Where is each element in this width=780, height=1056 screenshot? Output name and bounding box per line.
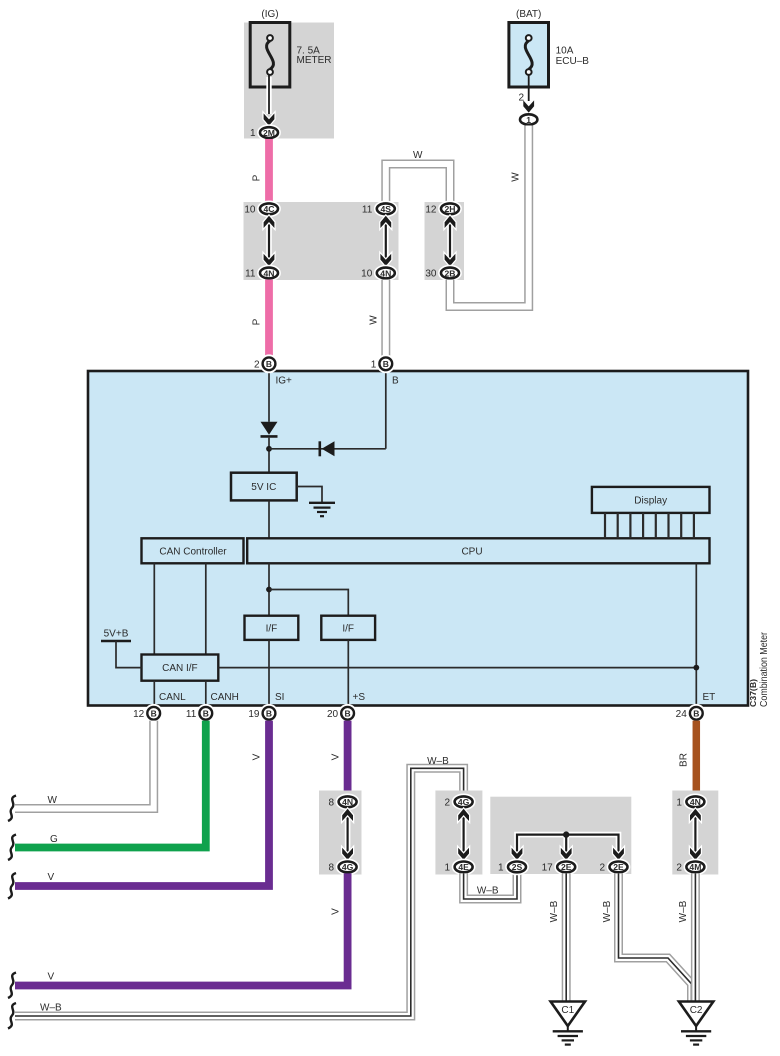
CAN Controller box <box>142 538 244 563</box>
meter pin 12 B CANL <box>133 707 160 720</box>
svg-text:P: P <box>252 174 263 181</box>
svg-text:2: 2 <box>445 797 451 808</box>
junction connector gray box 2H/2B <box>425 202 465 280</box>
svg-text:V: V <box>252 753 263 760</box>
meter pin 2 B IG+ <box>254 357 275 370</box>
CPU box <box>247 538 709 563</box>
svg-text:B: B <box>266 359 272 369</box>
wire ET internal <box>218 563 715 706</box>
svg-text:B: B <box>266 709 272 719</box>
wire D1 to 5V IC with node <box>266 438 272 473</box>
connector 2M pin 1 <box>250 127 278 139</box>
svg-text:ET: ET <box>703 692 716 703</box>
connector gray box 4N/4G <box>319 791 362 875</box>
svg-text:4E: 4E <box>458 862 469 872</box>
svg-text:B: B <box>383 359 389 369</box>
svg-text:4G: 4G <box>458 797 470 807</box>
svg-text:1: 1 <box>445 863 451 874</box>
label C37(B) Combination Meter <box>748 631 770 707</box>
svg-text:1: 1 <box>526 115 531 125</box>
svg-text:BR: BR <box>679 753 690 767</box>
wire SI internal <box>269 640 284 707</box>
wire BR pin 24 to 4N <box>679 721 697 796</box>
svg-text:CANH: CANH <box>211 692 239 703</box>
connector gray box 4N/4M <box>672 791 718 875</box>
wire W-B bottom long to 4G <box>15 756 464 1016</box>
svg-text:W: W <box>511 172 522 182</box>
break squiggle W <box>8 796 16 822</box>
svg-text:2H: 2H <box>445 204 456 214</box>
svg-text:2: 2 <box>254 360 260 371</box>
wire W-B 2E pin17 to ground C1 <box>549 873 566 1001</box>
svg-text:CPU: CPU <box>461 546 482 557</box>
svg-text:METER: METER <box>297 55 332 66</box>
wire W 4N to meter pin 1 <box>369 280 386 357</box>
connector 2B pin 30 <box>425 268 459 280</box>
svg-text:C2: C2 <box>690 1005 703 1016</box>
svg-text:11: 11 <box>362 204 373 215</box>
svg-text:W–B: W–B <box>40 1003 62 1014</box>
connector 1 <box>520 114 537 125</box>
wire 5V IC to CPU <box>268 500 270 538</box>
break squiggle V <box>8 873 16 899</box>
svg-text:B: B <box>151 709 157 719</box>
svg-text:W–B: W–B <box>678 900 689 922</box>
fuse IG value label <box>297 46 332 67</box>
svg-text:11: 11 <box>186 709 197 720</box>
wire +S internal <box>348 640 365 707</box>
IG fuse holder gray box <box>244 23 334 139</box>
svg-text:W–B: W–B <box>602 900 613 922</box>
svg-text:8: 8 <box>329 797 335 808</box>
break squiggle G <box>8 835 16 861</box>
wire W from BAT down to 2B <box>450 126 529 307</box>
5V IC box <box>231 473 297 501</box>
svg-text:CANL: CANL <box>159 692 186 703</box>
svg-text:2B: 2B <box>445 268 456 278</box>
I/F box left <box>245 616 299 640</box>
svg-text:4N: 4N <box>690 797 701 807</box>
bus arrows into 2S 2E 2E <box>512 848 624 860</box>
svg-text:2E: 2E <box>561 862 572 872</box>
wires CAN Controller to CAN I/F <box>154 563 206 654</box>
svg-text:2M: 2M <box>263 128 275 138</box>
svg-text:2: 2 <box>599 863 605 874</box>
connector 2H pin 12 <box>425 203 459 215</box>
svg-text:(IG): (IG) <box>261 9 278 20</box>
svg-text:4N: 4N <box>342 797 353 807</box>
svg-text:5V IC: 5V IC <box>251 482 276 493</box>
svg-text:C37(B): C37(B) <box>748 679 758 707</box>
Display box <box>592 487 710 513</box>
wire G CANH to left <box>15 721 206 848</box>
svg-text:V: V <box>330 753 341 760</box>
connector 4M pin 2 <box>676 862 704 874</box>
fuse IG 7.5A METER <box>250 9 290 87</box>
wire fuse BAT to connector 1 <box>518 75 534 113</box>
meter pin 20 B +S <box>327 707 354 720</box>
svg-text:4N: 4N <box>380 268 391 278</box>
wire P pink 4N to meter pin 2 <box>252 280 270 357</box>
svg-text:C1: C1 <box>561 1005 574 1016</box>
connector 2S pin 1 <box>498 862 526 874</box>
svg-text:W: W <box>48 795 58 806</box>
wire W-B 4E to 2S <box>464 873 517 899</box>
svg-text:I/F: I/F <box>266 623 278 634</box>
svg-text:8: 8 <box>329 863 335 874</box>
svg-text:1: 1 <box>250 128 256 139</box>
connector 4G pin 2 <box>445 796 473 808</box>
connector 4C pin 10 <box>244 203 278 215</box>
svg-text:1: 1 <box>676 797 682 808</box>
svg-text:ECU–B: ECU–B <box>556 56 590 67</box>
svg-text:G: G <box>50 834 58 845</box>
connector 4E pin 1 <box>445 862 473 874</box>
svg-text:W–B: W–B <box>477 886 499 897</box>
connector 2E pin 17 <box>542 862 576 874</box>
svg-text:I/F: I/F <box>342 623 354 634</box>
svg-text:W–B: W–B <box>427 756 449 767</box>
wire V +S to 4N <box>330 721 347 796</box>
connector 4N pin 11 <box>245 268 278 280</box>
svg-text:2E: 2E <box>613 862 624 872</box>
connector gray box 4G/4E <box>435 791 482 875</box>
wire W loop 4S to 2H <box>386 150 450 203</box>
svg-text:SI: SI <box>275 692 284 703</box>
connector 4N pin 10 <box>361 268 395 280</box>
ground symbol at 5V IC <box>297 487 335 517</box>
ground C2 <box>679 1002 713 1045</box>
svg-text:B: B <box>203 709 209 719</box>
connector 4N pin 1 <box>676 796 704 808</box>
svg-text:19: 19 <box>248 709 260 720</box>
junction connector gray box 4C/4N 4S/4N <box>244 202 399 280</box>
svg-text:B: B <box>392 376 399 387</box>
wire W-B 2E pin2 to ground C2 <box>602 873 692 1001</box>
svg-text:10: 10 <box>244 204 256 215</box>
break squiggle W-B <box>8 1003 16 1029</box>
svg-text:V: V <box>48 872 55 883</box>
connector 2E pin 2 <box>599 862 627 874</box>
junction arrows 4N-4M <box>690 809 701 860</box>
wires CAN I/F to CANL CANH pins <box>154 681 239 707</box>
connector 4S pin 11 <box>362 203 395 215</box>
svg-text:12: 12 <box>133 709 145 720</box>
svg-text:W: W <box>413 150 423 161</box>
svg-text:5V+B: 5V+B <box>104 629 129 640</box>
svg-text:B: B <box>693 709 699 719</box>
svg-text:IG+: IG+ <box>276 376 293 387</box>
junction arrows 4G-4E <box>458 809 469 860</box>
svg-text:4C: 4C <box>264 204 275 214</box>
svg-text:P: P <box>252 318 263 325</box>
svg-text:Combination Meter: Combination Meter <box>759 631 770 707</box>
diode D2 left <box>320 441 335 456</box>
svg-text:2S: 2S <box>512 862 523 872</box>
svg-text:10: 10 <box>361 269 373 280</box>
internal bus with node <box>517 831 619 852</box>
fuse BAT value label <box>556 46 590 68</box>
I/F box right <box>321 616 375 640</box>
combination meter box C37(B) <box>88 371 748 706</box>
fuse BAT 10A ECU-B <box>509 9 549 87</box>
meter pin 19 B SI <box>248 707 275 720</box>
svg-text:30: 30 <box>425 269 437 280</box>
5V+B rail <box>101 629 142 668</box>
svg-text:CAN Controller: CAN Controller <box>159 546 227 557</box>
CAN I/F box <box>142 655 219 681</box>
junction arrows 2H-2B <box>445 216 456 266</box>
svg-text:W: W <box>369 315 380 325</box>
svg-text:12: 12 <box>425 204 437 215</box>
svg-text:Display: Display <box>634 495 667 506</box>
wire V SI to left <box>15 721 269 886</box>
svg-text:2: 2 <box>676 863 682 874</box>
svg-text:V: V <box>48 972 55 983</box>
junction arrows 4N-4G <box>342 809 353 860</box>
wire V 4G to left bottom <box>15 873 348 985</box>
wire IG+ internal <box>269 371 292 422</box>
svg-text:20: 20 <box>327 709 339 720</box>
svg-text:B: B <box>345 709 351 719</box>
connector 4N pin 8 <box>329 796 357 808</box>
svg-text:1: 1 <box>371 360 377 371</box>
meter pin 1 B <box>371 357 392 370</box>
svg-text:24: 24 <box>676 709 688 720</box>
svg-text:4M: 4M <box>689 862 701 872</box>
display to CPU comb <box>605 513 694 538</box>
svg-text:V: V <box>330 908 341 915</box>
svg-text:4G: 4G <box>342 862 354 872</box>
svg-text:+S: +S <box>353 692 366 703</box>
junction arrows 4C-4N <box>264 216 275 266</box>
meter pin 24 B ET <box>676 707 703 720</box>
svg-text:4S: 4S <box>381 204 392 214</box>
svg-text:10A: 10A <box>556 46 574 57</box>
wire W CANL to left <box>15 721 154 809</box>
svg-text:4N: 4N <box>264 268 275 278</box>
junction arrows 4S-4N <box>380 216 391 266</box>
ground C1 <box>551 1002 585 1045</box>
svg-text:11: 11 <box>245 269 256 280</box>
diode D1 down <box>261 422 278 437</box>
wire B internal <box>269 371 399 449</box>
break squiggle V bottom <box>8 973 16 999</box>
svg-text:W–B: W–B <box>549 900 560 922</box>
svg-text:17: 17 <box>542 863 554 874</box>
meter pin 11 B CANH <box>186 707 212 720</box>
connector gray box 2S/2E/2E <box>490 797 631 874</box>
wire CPU to I/F junction <box>266 563 348 615</box>
wire P pink 2M to 4C <box>252 139 270 203</box>
svg-text:CAN I/F: CAN I/F <box>162 663 198 674</box>
wire W-B 4M to ground C2 <box>678 873 695 1001</box>
wire fuse IG to 2M <box>264 75 275 126</box>
svg-text:(BAT): (BAT) <box>516 9 541 20</box>
connector 4G pin 8 <box>329 862 357 874</box>
svg-text:1: 1 <box>498 863 504 874</box>
